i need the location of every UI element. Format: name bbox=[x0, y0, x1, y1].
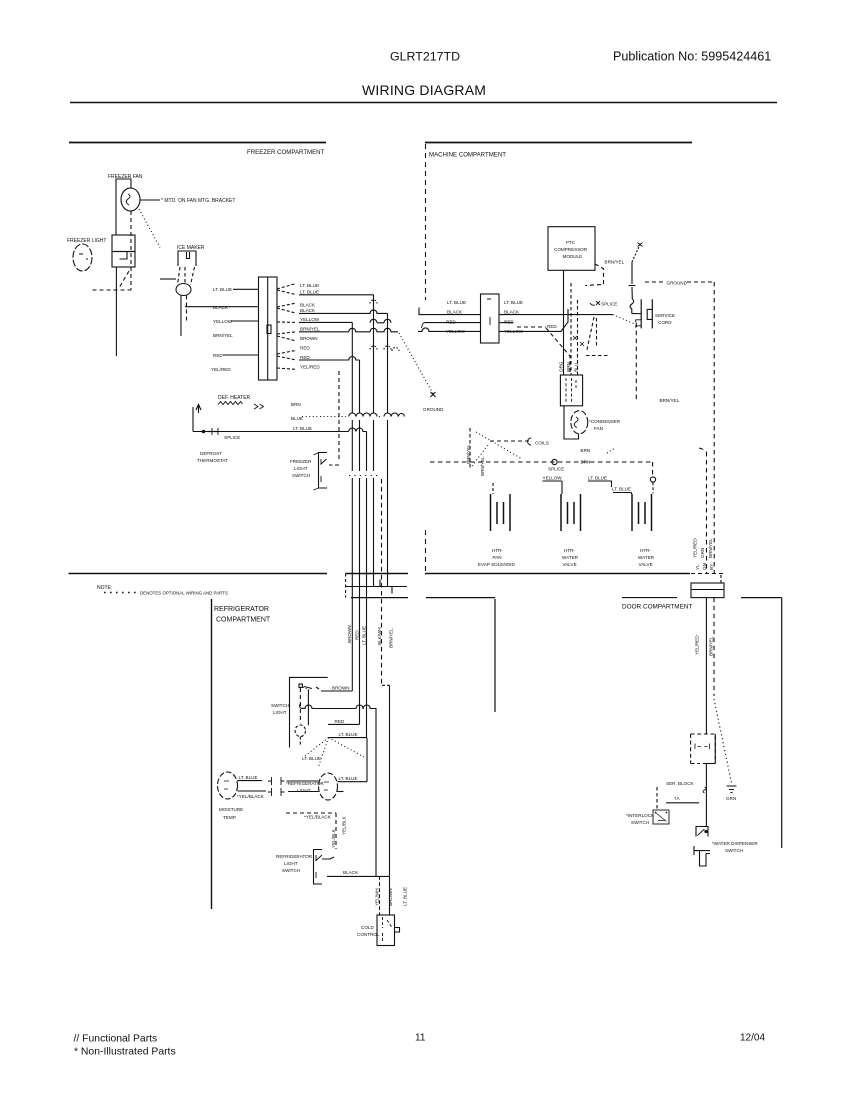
wire bundle D vertical LT.BLUE2 bbox=[373, 295, 375, 587]
wire ice maker lead down dashed bbox=[186, 296, 188, 324]
svg-text:GN: GN bbox=[702, 563, 707, 570]
dashed YEL/BLACK run bbox=[286, 813, 336, 849]
svg-text:NOTE:: NOTE: bbox=[97, 585, 112, 591]
wire dashed diagonal at fan bottom bbox=[119, 271, 129, 288]
svg-text:*WATER DISPENSER: *WATER DISPENSER bbox=[712, 841, 758, 846]
svg-text:COMPARTMENT: COMPARTMENT bbox=[216, 617, 271, 624]
svg-text:BROWN: BROWN bbox=[388, 888, 393, 906]
svg-text:COLD: COLD bbox=[361, 925, 374, 930]
splice marks and label bbox=[590, 301, 600, 305]
svg-text:SWITCH: SWITCH bbox=[631, 820, 649, 825]
wire LT.BLUE lamp2 right with riser bbox=[338, 738, 368, 782]
svg-text:SWITCH-: SWITCH- bbox=[271, 703, 291, 708]
door connector block bbox=[691, 583, 724, 598]
lamp2 wires bbox=[287, 781, 319, 792]
heater group 2 element bbox=[561, 494, 581, 531]
svg-text:BLACK: BLACK bbox=[213, 305, 229, 310]
svg-text:RED: RED bbox=[547, 324, 557, 329]
svg-text:BRN/YEL: BRN/YEL bbox=[605, 260, 625, 265]
svg-text:CORD: CORD bbox=[658, 320, 672, 325]
machine compartment top border bbox=[425, 142, 692, 144]
wire dashed F BRN/YEL vertical bbox=[381, 479, 383, 685]
door compartment right border bbox=[741, 598, 782, 848]
lead terminal x marks bbox=[573, 336, 584, 346]
wire RED dashed to relay bbox=[499, 322, 513, 324]
dispenser switch bbox=[696, 827, 708, 837]
svg-text:BRN: BRN bbox=[581, 448, 591, 453]
wire door solid down bbox=[705, 598, 707, 734]
wire BRN/YEL solid drop to cold control bbox=[389, 685, 391, 915]
svg-text:GROUND: GROUND bbox=[667, 281, 688, 286]
svg-text:BRN/YEL: BRN/YEL bbox=[708, 538, 713, 558]
svg-text:LT. BLUE: LT. BLUE bbox=[293, 426, 312, 431]
svg-text:12/04: 12/04 bbox=[740, 1033, 765, 1044]
svg-text:BROWN: BROWN bbox=[347, 625, 352, 643]
svg-text:RED: RED bbox=[300, 345, 310, 350]
compressor lead solid bbox=[563, 270, 565, 375]
door terminal box bbox=[691, 734, 716, 764]
svg-text:LT. BLUE: LT. BLUE bbox=[361, 626, 366, 645]
svg-text:DEF. HEATER: DEF. HEATER bbox=[218, 395, 251, 401]
wire dotted splice to service cord bbox=[613, 315, 634, 324]
wire LT.BLUE from tstat to bundle (hops A,B) bbox=[193, 428, 367, 431]
svg-text:WATER: WATER bbox=[562, 555, 579, 560]
svg-text:BLACK: BLACK bbox=[300, 308, 316, 313]
svg-text:LT. BLUE: LT. BLUE bbox=[302, 756, 321, 761]
svg-text:PTC: PTC bbox=[566, 240, 576, 245]
wire lamp2 bottom stub bbox=[338, 791, 344, 793]
lamp 2 dashed circle bbox=[319, 773, 338, 800]
svg-text:BRN/YEL: BRN/YEL bbox=[480, 456, 485, 476]
freezer compartment top border bbox=[69, 142, 326, 144]
ground dashed vertical 2 bbox=[699, 448, 707, 573]
svg-text:BRN/YEL: BRN/YEL bbox=[213, 333, 233, 338]
defrost heater element bbox=[218, 402, 243, 405]
svg-text:THERMOSTAT: THERMOSTAT bbox=[197, 458, 228, 463]
lamp1 wires bbox=[238, 781, 267, 791]
svg-text:*YEL/BLACK: *YEL/BLACK bbox=[237, 794, 265, 799]
dashed vertical junction left bbox=[469, 428, 471, 468]
compressor lead dashed 2 bbox=[577, 300, 579, 375]
svg-text:YELLOW: YELLOW bbox=[543, 476, 563, 481]
svg-text:RED: RED bbox=[446, 319, 456, 324]
wire defrost tstat left vertical bbox=[192, 407, 194, 432]
wire dashed horizontal to freezer light bbox=[93, 289, 132, 291]
svg-text:SWITCH: SWITCH bbox=[282, 868, 300, 873]
svg-text:LIGHT: LIGHT bbox=[273, 710, 287, 715]
svg-text:GLRT217TD: GLRT217TD bbox=[390, 50, 460, 64]
evap ground X marker bbox=[431, 392, 436, 397]
ice maker lead dashes bbox=[178, 267, 181, 285]
dashed path compressor corner bbox=[585, 264, 604, 286]
svg-text:ORG: ORG bbox=[559, 361, 564, 372]
svg-text:BROWN: BROWN bbox=[332, 686, 350, 691]
svg-text:LT. BLUE: LT. BLUE bbox=[588, 476, 607, 481]
svg-text:BRN/YEL: BRN/YEL bbox=[660, 398, 680, 403]
freezer fan body lower box bbox=[112, 252, 135, 268]
wire evap ground dotted diagonal bbox=[399, 333, 433, 394]
ice maker plug inner notch bbox=[187, 252, 190, 259]
svg-text:MACHINE COMPARTMENT: MACHINE COMPARTMENT bbox=[429, 152, 506, 159]
svg-text:TEMP: TEMP bbox=[223, 815, 236, 820]
svg-text:* Non-Illustrated Parts: * Non-Illustrated Parts bbox=[74, 1047, 176, 1058]
dotted jumper row with hops over bundle bbox=[302, 416, 346, 418]
svg-text:LT. BLUE: LT. BLUE bbox=[612, 487, 631, 492]
bundle pass-through connector line2 bbox=[346, 580, 407, 594]
refrigerator compartment right border bbox=[494, 599, 496, 712]
svg-text:RED: RED bbox=[354, 630, 359, 640]
svg-text:LT. BLUE: LT. BLUE bbox=[339, 776, 358, 781]
connector block mid divider bbox=[267, 277, 269, 380]
wire BLK/WH from switch (hops) bbox=[300, 704, 376, 711]
svg-text:ICE MAKER: ICE MAKER bbox=[177, 245, 205, 251]
wire YELLOW into block bbox=[231, 320, 259, 322]
cold control box bbox=[377, 915, 395, 946]
svg-text:FREEZER LIGHT: FREEZER LIGHT bbox=[67, 238, 106, 244]
wire RED bundle B to lamp area bbox=[328, 723, 360, 725]
wire switch upper stub bbox=[322, 857, 334, 859]
wire dashed from plug down bbox=[635, 323, 637, 401]
light switch enclosure corner bbox=[290, 677, 328, 747]
interlock switch component bbox=[656, 787, 658, 810]
divider wall dashed gap at door wires bbox=[691, 573, 724, 575]
svg-text:REFRIGERATOR: REFRIGERATOR bbox=[214, 606, 269, 613]
dotted ground diagonal door bbox=[714, 699, 732, 783]
dispenser valve coil bbox=[694, 846, 710, 855]
divider wall line (freezer / lower compartments) bbox=[69, 573, 691, 575]
svg-text:BRN: BRN bbox=[566, 362, 571, 372]
freezer fan body upper box bbox=[112, 235, 135, 252]
compressor terminal box bbox=[548, 227, 595, 271]
service cord outlet bars bbox=[641, 299, 652, 328]
wire dashed F corner to solid drop bbox=[382, 684, 390, 686]
refrigerator compartment left border bbox=[211, 599, 213, 909]
service cord wiggle and cord bbox=[630, 287, 634, 314]
dotted row2 with hops bbox=[349, 475, 378, 477]
wire BLACK main to splice bbox=[499, 314, 613, 316]
wire RED into block bbox=[223, 354, 259, 356]
ice maker plug box bbox=[178, 251, 196, 266]
svg-text:REFRIGERATOR: REFRIGERATOR bbox=[276, 854, 313, 859]
svg-text:7A: 7A bbox=[674, 796, 681, 801]
svg-text:YEL/BLK: YEL/BLK bbox=[342, 815, 347, 835]
machine compartment left dashed border bbox=[425, 144, 427, 300]
heater group 1 stub bbox=[492, 483, 494, 494]
svg-text:BLK/WH: BLK/WH bbox=[377, 627, 382, 645]
svg-text:BLACK: BLACK bbox=[447, 310, 463, 315]
inline connector brackets bbox=[268, 777, 285, 796]
svg-text:HTR-: HTR- bbox=[492, 548, 503, 553]
svg-text:VALVE: VALVE bbox=[639, 562, 653, 567]
svg-text:HTR-: HTR- bbox=[564, 548, 575, 553]
svg-text:EVAP SOLENOID: EVAP SOLENOID bbox=[478, 562, 516, 567]
wire YELLOW to compressor leads bbox=[499, 309, 568, 331]
door light switch terminal bbox=[299, 684, 302, 687]
main freezer connector block bbox=[259, 277, 278, 380]
ground symbol door bbox=[727, 786, 737, 793]
coil symbol on dashed line bbox=[490, 440, 529, 442]
wire YELLOW into m-connector (hop at border) bbox=[418, 328, 481, 332]
svg-text:LIGHT: LIGHT bbox=[294, 466, 308, 471]
wire door dashed down bbox=[713, 598, 715, 696]
door compartment overline bbox=[622, 597, 677, 599]
svg-text:DEFROST: DEFROST bbox=[200, 451, 222, 456]
svg-text:BLACK: BLACK bbox=[343, 870, 359, 875]
wire bundle B vertical RED bbox=[359, 360, 361, 724]
splice s-marks bbox=[703, 787, 706, 793]
svg-text:LT. BLUE: LT. BLUE bbox=[339, 732, 358, 737]
dashed ground bus across machine compartment bbox=[430, 462, 653, 477]
svg-text:BY: BY bbox=[709, 564, 714, 570]
service cord prongs bbox=[636, 320, 642, 328]
svg-text:MODULE: MODULE bbox=[563, 254, 583, 259]
header rule bbox=[70, 102, 777, 104]
svg-text:BRN/YEL: BRN/YEL bbox=[389, 628, 394, 648]
svg-text:BRN/YEL: BRN/YEL bbox=[300, 327, 320, 332]
svg-text:Publication No: 5995424461: Publication No: 5995424461 bbox=[613, 50, 771, 64]
condenser fan motor circle bbox=[571, 411, 588, 434]
dotted marks near bus bbox=[607, 448, 615, 453]
divider dashed corner down bbox=[720, 575, 722, 583]
svg-text:BLACK: BLACK bbox=[300, 302, 316, 307]
bundle pass-through connector left dashed edge bbox=[345, 574, 347, 598]
wire bundle A vertical YELLOW bbox=[351, 322, 353, 691]
wire freezer fan down (solid) bbox=[115, 267, 117, 356]
svg-text:BLU: BLU bbox=[574, 363, 579, 372]
ice maker grommet circle bbox=[176, 284, 191, 296]
svg-text:RED: RED bbox=[335, 719, 345, 724]
freezer fan dotted ground leader bbox=[139, 209, 160, 248]
svg-text:BRN/YEL: BRN/YEL bbox=[709, 636, 714, 656]
wire stub into ice maker bbox=[160, 278, 176, 280]
chevron marks right of def heater bbox=[254, 404, 264, 409]
wire bundle C vertical LT.BLUE bbox=[366, 432, 368, 738]
svg-text:11: 11 bbox=[415, 1033, 426, 1044]
connector block key tab bbox=[267, 325, 271, 334]
wire LT.BLUE bundle C junction bbox=[329, 737, 367, 739]
splice circle on ground bus bbox=[552, 459, 557, 464]
svg-text:SPLICE: SPLICE bbox=[601, 302, 617, 307]
wire BROWN switch to bundle A bbox=[304, 687, 352, 692]
svg-text:YEL/RED: YEL/RED bbox=[693, 538, 698, 558]
svg-text:LT. BLUE: LT. BLUE bbox=[403, 887, 408, 906]
svg-text:BROWN: BROWN bbox=[300, 336, 318, 341]
freezer fan motor stem bbox=[116, 179, 131, 235]
wire BLK/WH descender joins bbox=[375, 711, 377, 876]
svg-text:WATER: WATER bbox=[638, 555, 655, 560]
wire freezer fan dashed drop bbox=[130, 211, 132, 290]
note dotted sample line and text bbox=[104, 592, 137, 594]
svg-text:SERVICE: SERVICE bbox=[655, 313, 675, 318]
dashed drop into cold control bbox=[379, 876, 381, 915]
energy saver switch symbol bbox=[314, 850, 323, 885]
wire RED into m-connector bbox=[422, 323, 481, 328]
lamp 1 dashed circle bbox=[218, 772, 238, 799]
svg-text:YEL/BLK: YEL/BLK bbox=[331, 828, 336, 848]
relay overload box bbox=[560, 375, 582, 406]
svg-text:GRN: GRN bbox=[726, 796, 736, 801]
svg-text:* MTD. ON FAN MTG. BRACKET: * MTD. ON FAN MTG. BRACKET bbox=[161, 198, 235, 204]
defrost thermostat arrow bbox=[196, 405, 201, 414]
svg-text:WIRING DIAGRAM: WIRING DIAGRAM bbox=[362, 82, 486, 98]
svg-text:SWITCH: SWITCH bbox=[292, 473, 310, 478]
wire relay to condenser fan loop bbox=[564, 406, 579, 439]
svg-text:LT. BLUE: LT. BLUE bbox=[239, 775, 258, 780]
svg-text:VALVE: VALVE bbox=[563, 562, 577, 567]
svg-text:YEL/RED: YEL/RED bbox=[211, 367, 231, 372]
freezer fan body inner step bbox=[120, 252, 128, 260]
door light switch lever bbox=[307, 689, 309, 725]
svg-text:HTR-: HTR- bbox=[640, 548, 651, 553]
svg-text:YL: YL bbox=[695, 564, 700, 570]
svg-text:GRN: GRN bbox=[700, 548, 705, 558]
wire BLACK switch to cold control bbox=[327, 875, 390, 877]
svg-text:COILS: COILS bbox=[535, 441, 549, 446]
svg-text:LT. BLUE: LT. BLUE bbox=[504, 300, 523, 305]
machine connector block bbox=[481, 294, 500, 343]
svg-text:*YEL/BLACK: *YEL/BLACK bbox=[304, 815, 332, 820]
door light bulb dashed circle bbox=[295, 725, 305, 737]
svg-text:BLUE: BLUE bbox=[291, 416, 303, 421]
jog marks near bundle top bbox=[370, 319, 391, 323]
svg-text:LT. BLUE: LT. BLUE bbox=[447, 300, 466, 305]
defrost thermostat contact bbox=[202, 430, 204, 432]
svg-text:YELLOW: YELLOW bbox=[213, 319, 233, 324]
svg-text:RED: RED bbox=[504, 319, 514, 324]
dashed splice drop to relay right bbox=[586, 317, 610, 356]
svg-text:COMPRESSOR: COMPRESSOR bbox=[554, 247, 588, 252]
svg-text:CONTROL: CONTROL bbox=[357, 932, 380, 937]
wire BLACK into m-connector bbox=[419, 308, 481, 315]
svg-text:BLACK: BLACK bbox=[504, 310, 520, 315]
svg-text:SWITCH: SWITCH bbox=[725, 848, 743, 853]
svg-text:SER. BLOCK: SER. BLOCK bbox=[666, 781, 695, 786]
grommet circle G3 feed bbox=[650, 477, 655, 482]
svg-text:BRN: BRN bbox=[291, 402, 301, 407]
svg-text:LT. BLUE: LT. BLUE bbox=[213, 287, 232, 292]
heater group 3 element bbox=[632, 494, 652, 531]
svg-text:RED: RED bbox=[213, 353, 223, 358]
heater group 1 element bbox=[491, 494, 511, 531]
svg-text:LT. BLUE: LT. BLUE bbox=[300, 283, 319, 288]
svg-text:FREEZER COMPARTMENT: FREEZER COMPARTMENT bbox=[247, 149, 325, 156]
svg-text:DOOR COMPARTMENT: DOOR COMPARTMENT bbox=[622, 604, 693, 611]
svg-text:LIGHT: LIGHT bbox=[297, 788, 311, 793]
svg-text:SPLICE: SPLICE bbox=[224, 435, 240, 440]
junction dotted fan bbox=[305, 738, 364, 768]
wire BLACK icemaker to block bbox=[185, 306, 259, 308]
wire ice maker lead down solid bbox=[180, 296, 182, 337]
svg-text:FREEZER: FREEZER bbox=[290, 459, 312, 464]
svg-text:MOISTURE: MOISTURE bbox=[219, 807, 243, 812]
svg-text:*INTERLOCK: *INTERLOCK bbox=[626, 813, 655, 818]
wire LT.BLUE into block bbox=[233, 288, 259, 290]
dashed drop to freezer light switch bbox=[338, 371, 340, 461]
svg-text:PAN: PAN bbox=[493, 555, 502, 560]
overload / line fuse lever bbox=[632, 245, 640, 263]
svg-text:DENOTES OPTIONAL WIRING AND PA: DENOTES OPTIONAL WIRING AND PARTS bbox=[140, 591, 228, 596]
svg-text:*CONDENSER: *CONDENSER bbox=[589, 419, 621, 424]
svg-text:LIGHT: LIGHT bbox=[284, 861, 298, 866]
freezer light switch symbol bbox=[319, 453, 328, 489]
freezer light bulb circle bbox=[73, 244, 92, 271]
svg-text:// Functional Parts: // Functional Parts bbox=[74, 1034, 158, 1045]
dotted hops at BROWN/RED rows bbox=[370, 346, 377, 350]
freezer fan motor leader line bbox=[140, 199, 160, 201]
svg-text:RED: RED bbox=[300, 355, 310, 360]
svg-text:FAN: FAN bbox=[594, 426, 603, 431]
freezer fan motor circle bbox=[121, 188, 140, 211]
wire door down 2 bbox=[705, 764, 707, 828]
compressor lead dashed 1 bbox=[570, 283, 572, 375]
service cord box bbox=[647, 309, 652, 319]
svg-text:GROUND: GROUND bbox=[423, 407, 444, 412]
connector fan-out dashes right side bbox=[277, 284, 296, 370]
wire bundle E vertical BLACK2 bbox=[387, 313, 389, 586]
svg-text:YEL/WH: YEL/WH bbox=[375, 888, 380, 906]
svg-text:SPLICE: SPLICE bbox=[548, 467, 564, 472]
svg-text:YEL/RED: YEL/RED bbox=[300, 364, 320, 369]
svg-text:BRN/YEL: BRN/YEL bbox=[466, 444, 471, 464]
ground dashed vertical right bbox=[713, 282, 715, 573]
svg-text:YEL/RED: YEL/RED bbox=[695, 635, 700, 655]
svg-text:LT. BLUE: LT. BLUE bbox=[300, 289, 319, 294]
divider line3 bbox=[351, 597, 495, 599]
door light switch dashed pole bbox=[299, 688, 301, 723]
svg-text:YELLOW: YELLOW bbox=[300, 317, 320, 322]
svg-text:BRN: BRN bbox=[581, 460, 591, 465]
